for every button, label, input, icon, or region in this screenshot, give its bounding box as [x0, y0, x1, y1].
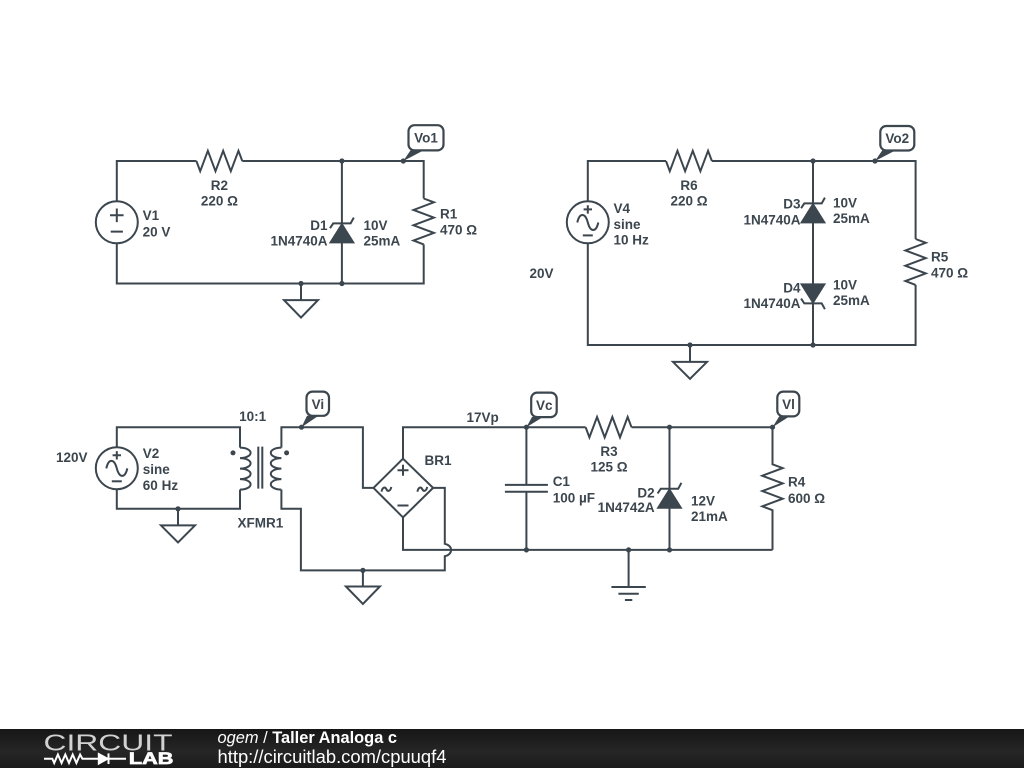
svg-text:25mA: 25mA — [833, 211, 870, 226]
svg-text:Vo2: Vo2 — [885, 131, 909, 146]
ground circuit2 — [673, 345, 707, 379]
node junction D4 bottom — [810, 342, 815, 347]
wire circuit2 bottom rail — [588, 243, 916, 345]
label XFMR1 ratio — [239, 409, 267, 424]
flag Vc — [526, 393, 556, 428]
svg-text:C1: C1 — [553, 474, 571, 489]
svg-text:R2: R2 — [211, 178, 228, 193]
resistor R5 — [905, 239, 925, 285]
label 20V annotation — [530, 266, 554, 281]
svg-text:470 Ω: 470 Ω — [440, 222, 477, 237]
svg-text:100 µF: 100 µF — [553, 491, 595, 506]
svg-text:20V: 20V — [530, 266, 554, 281]
wire bottom bus — [403, 517, 773, 550]
node junction ground circuit1 — [298, 281, 303, 286]
resistor R4 — [762, 427, 782, 550]
label D2 value — [691, 494, 728, 525]
svg-text:220 Ω: 220 Ω — [670, 193, 707, 208]
zener diode D1 — [330, 161, 354, 284]
svg-text:125 Ω: 125 Ω — [590, 460, 627, 475]
node Vl — [770, 425, 775, 430]
label 17Vp annotation — [467, 410, 499, 425]
node Vc — [524, 425, 529, 430]
svg-text:10V: 10V — [833, 277, 857, 292]
label D2 — [598, 485, 655, 515]
svg-text:10:1: 10:1 — [239, 409, 267, 424]
node junction D1 bottom — [339, 281, 344, 286]
svg-text:600 Ω: 600 Ω — [788, 491, 825, 506]
earth ground — [611, 550, 645, 600]
node junction ground V2 — [175, 506, 180, 511]
svg-text:XFMR1: XFMR1 — [238, 516, 284, 531]
node Vo1 — [401, 158, 406, 163]
svg-text:LAB: LAB — [129, 750, 174, 768]
flag Vo2 — [875, 126, 914, 161]
svg-text:V1: V1 — [143, 208, 160, 223]
label R5 — [931, 249, 968, 280]
svg-text:V2: V2 — [143, 446, 160, 461]
node junction D2 bottom — [667, 547, 672, 552]
node junction ground circuit2 — [687, 342, 692, 347]
svg-text:sine: sine — [143, 462, 171, 477]
svg-text:10 Hz: 10 Hz — [614, 233, 650, 248]
label R3 — [590, 444, 627, 475]
wire circuit2 top rail right — [712, 161, 916, 239]
resistor R1 — [414, 199, 434, 245]
wire V2 top lead to primary — [117, 427, 240, 447]
ground circuit1 — [284, 284, 318, 318]
svg-text:BR1: BR1 — [425, 453, 452, 468]
svg-text:17Vp: 17Vp — [467, 410, 499, 425]
svg-text:1N4740A: 1N4740A — [743, 296, 800, 311]
voltage source V4 — [567, 201, 609, 243]
svg-text:Vc: Vc — [536, 398, 553, 413]
svg-text:1N4740A: 1N4740A — [743, 212, 800, 227]
svg-text:20 V: 20 V — [143, 224, 171, 239]
svg-text:1N4742A: 1N4742A — [598, 500, 655, 515]
label D4 value — [833, 277, 870, 308]
node junction C1 bottom — [524, 547, 529, 552]
svg-text:120V: 120V — [56, 450, 88, 465]
wire bottom with hop to bridge right — [363, 488, 451, 571]
zener diode D4 — [801, 284, 825, 345]
svg-text:sine: sine — [614, 217, 642, 232]
label D1 — [270, 218, 328, 249]
svg-text:D2: D2 — [637, 485, 654, 500]
svg-text:R3: R3 — [600, 444, 618, 459]
label XFMR1 — [238, 516, 284, 531]
label R6 — [670, 178, 707, 209]
label V2 — [143, 446, 179, 493]
label D3 value — [833, 195, 870, 226]
zener diode D2 — [658, 427, 682, 550]
ground V2 — [161, 509, 195, 543]
node junction D1 top — [339, 158, 344, 163]
label R1 — [440, 206, 477, 237]
flag Vl — [773, 392, 800, 428]
svg-text:60 Hz: 60 Hz — [143, 478, 179, 493]
label D3 — [743, 197, 801, 228]
svg-text:D1: D1 — [310, 218, 328, 233]
label 120V annotation — [56, 450, 88, 465]
svg-text:Vl: Vl — [782, 397, 795, 412]
svg-text:21mA: 21mA — [691, 509, 728, 524]
wire circuit2 top rail left + V4 top lead — [588, 161, 666, 201]
flag Vo1 — [403, 125, 443, 161]
label D4 — [743, 280, 801, 311]
svg-text:R4: R4 — [788, 474, 806, 489]
wire secondary bottom to bridge — [281, 490, 363, 571]
resistor R2 — [196, 151, 242, 171]
node Vo2 — [872, 158, 877, 163]
voltage source V2 — [96, 447, 138, 489]
svg-text:D4: D4 — [783, 280, 801, 295]
svg-text:R1: R1 — [440, 206, 458, 221]
label D1 value — [364, 218, 401, 249]
svg-text:1N4740A: 1N4740A — [270, 234, 327, 249]
svg-text:ogem / Taller Analoga c: ogem / Taller Analoga c — [218, 729, 397, 747]
label V1 — [143, 208, 171, 239]
svg-text:25mA: 25mA — [364, 234, 401, 249]
svg-text:R5: R5 — [931, 249, 949, 264]
svg-text:220 Ω: 220 Ω — [201, 193, 238, 208]
label R2 — [201, 178, 238, 209]
flag Vi — [302, 392, 330, 428]
label C1 — [553, 474, 595, 506]
svg-text:http://circuitlab.com/cpuuqf4: http://circuitlab.com/cpuuqf4 — [218, 746, 447, 767]
ground bridge — [346, 570, 380, 604]
svg-text:25mA: 25mA — [833, 293, 870, 308]
svg-text:R6: R6 — [680, 178, 698, 193]
wire V2 bottom lead from primary — [117, 489, 240, 509]
zener diode D3 — [801, 161, 825, 284]
bridge rectifier BR1 — [374, 459, 434, 518]
svg-text:Vo1: Vo1 — [414, 131, 438, 146]
svg-text:10V: 10V — [833, 195, 857, 210]
voltage source V1 — [96, 201, 138, 243]
wire bridge top to output rail — [403, 427, 586, 459]
wire circuit1 bottom rail — [117, 243, 424, 283]
node Vi — [299, 425, 304, 430]
label BR1 — [425, 453, 452, 468]
label V4 — [614, 201, 650, 248]
CircuitLab logo — [0, 729, 1024, 768]
node junction earth ground — [626, 547, 631, 552]
node junction D2 top — [667, 425, 672, 430]
svg-text:Vi: Vi — [312, 397, 325, 412]
svg-text:V4: V4 — [614, 201, 631, 216]
wire output rail right — [632, 426, 773, 428]
svg-text:10V: 10V — [364, 218, 388, 233]
wire secondary top to bridge — [281, 427, 373, 488]
svg-text:470 Ω: 470 Ω — [931, 266, 968, 281]
capacitor C1 — [505, 427, 548, 550]
resistor R3 — [586, 417, 632, 437]
wire circuit1 top rail right — [242, 161, 423, 199]
resistor R6 — [666, 151, 712, 171]
node junction ground bridge — [360, 568, 365, 573]
node junction D3 top — [810, 158, 815, 163]
svg-text:D3: D3 — [783, 197, 801, 212]
wire circuit1 top rail left + V1 top lead — [117, 161, 197, 201]
label R4 — [788, 474, 825, 506]
transformer XFMR1 — [231, 447, 290, 490]
svg-text:12V: 12V — [691, 494, 715, 509]
